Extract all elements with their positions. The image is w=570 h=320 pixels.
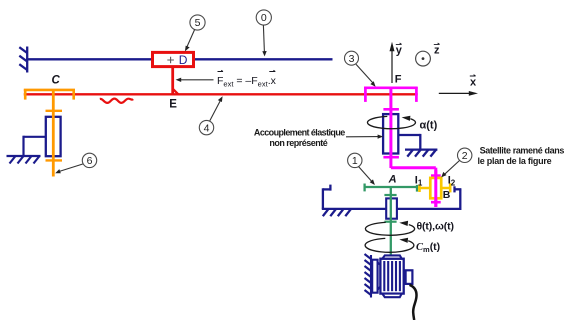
motor (navy) [365,254,413,298]
red fillet at E [173,89,178,94]
box D (+D damper) [153,52,194,67]
arrow accouplement [346,135,383,139]
beam 0 (navy horizontal) [26,58,332,60]
magenta shaft over satellite [434,170,437,207]
circle 1 [348,153,375,185]
svg-text:E: E [169,99,177,111]
text: satellite [478,146,565,167]
svg-text:θ(t),ω(t): θ(t),ω(t) [417,221,454,233]
svg-text:le plan de la figure: le plan de la figure [478,156,552,166]
Fext formula [217,70,277,88]
svg-text:y: y [396,45,403,57]
svg-text:2: 2 [462,150,468,162]
svg-text:4: 4 [204,122,210,134]
circle 4 [199,96,222,135]
alpha(t) rotation arrow [367,116,437,132]
svg-text:Satellite ramené dans: Satellite ramené dans [480,146,565,156]
theta/omega rotation arrow [365,221,453,236]
svg-text:6: 6 [87,155,93,167]
motor cable [410,285,417,320]
Cm(t) rotation arrow [365,238,440,254]
circle 0 [256,10,271,57]
circle 3 [345,51,376,87]
svg-text:Accouplement élastique: Accouplement élastique [254,127,345,137]
text: accouplement [254,127,345,148]
svg-text:0: 0 [261,12,267,24]
bearing block (left, navy) [46,117,61,156]
bearing block (bottom, navy) [386,198,397,218]
svg-text:C: C [52,75,61,87]
svg-text:B: B [443,189,451,201]
svg-text:z: z [434,45,440,57]
svg-text:x: x [470,77,477,89]
svg-text:3: 3 [349,53,355,65]
arm 1 (green) [364,184,418,257]
circle 5 [185,15,205,52]
bearing block (upper right, navy) [383,114,398,153]
circle 2 [441,148,472,177]
svg-text:non représenté: non représenté [269,138,327,148]
svg-text:α(t): α(t) [420,119,438,131]
svg-text:F: F [395,74,402,86]
crank C (orange) [24,89,75,100]
wall anchor top-left [19,47,27,73]
axis x [439,75,478,96]
frame 0 bottom (navy) [322,185,462,217]
shaft of C (orange vertical) [46,89,63,177]
bracket + ground (left bearing support) [7,136,47,164]
svg-text:1: 1 [352,155,358,167]
circle 6 [55,153,97,173]
svg-text:A: A [388,174,397,186]
red squiggle (break symbol) [100,99,133,103]
bracket + ground (upper right support) [397,134,437,157]
svg-text:5: 5 [195,17,201,29]
red link E vertical [171,66,174,95]
axis z (out of plane) [416,43,440,66]
bar 4 (red horizontal) [24,93,418,95]
Fext arrow [176,78,214,82]
svg-text:D: D [179,53,188,67]
axis y [390,42,403,83]
shaft 3 (magenta) [364,87,441,207]
satellite 2 (yellow) [418,178,451,198]
